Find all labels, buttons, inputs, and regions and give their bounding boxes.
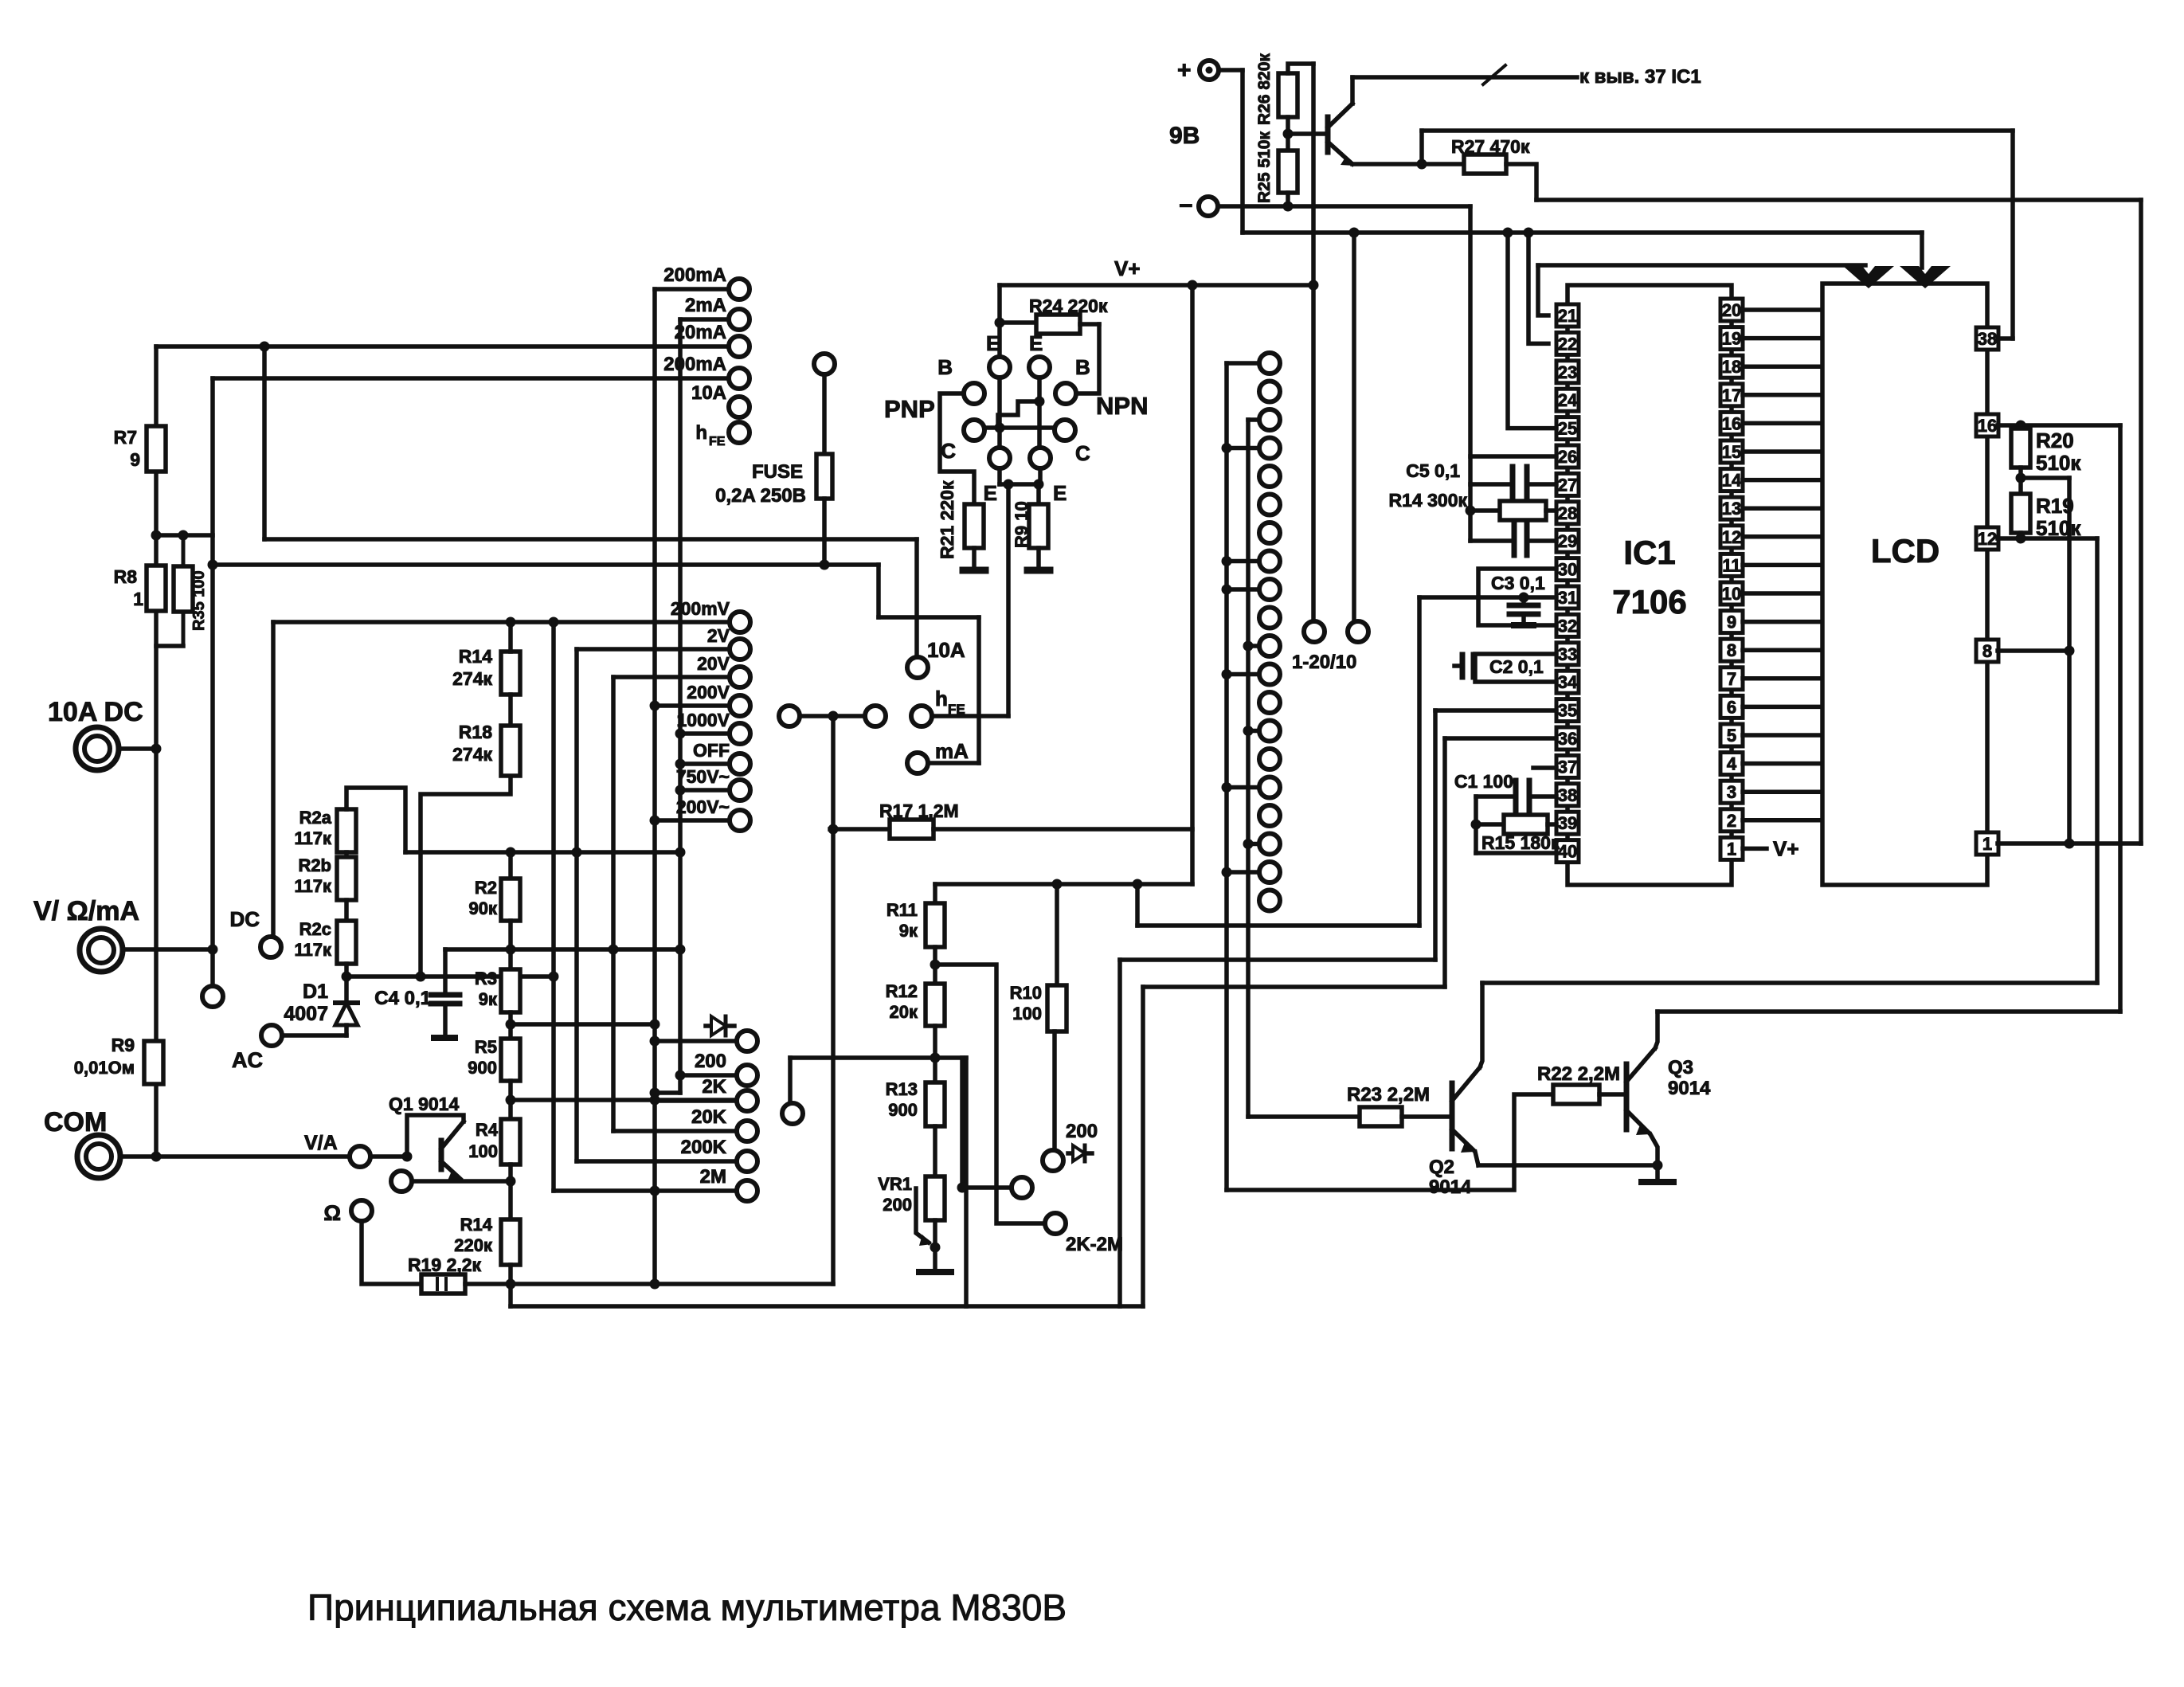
wire IC1 pin1 V+ [1743, 847, 1767, 851]
ground VR1 [919, 1269, 951, 1275]
contact E NPN top [1029, 331, 1050, 378]
wire 2mA to V854 [680, 317, 728, 322]
pin 34 IC1 [1556, 671, 1579, 693]
wire V1497 rail [1190, 285, 1195, 884]
wire V1103 [876, 565, 881, 617]
svg-text:DC: DC [229, 907, 260, 931]
wire row1070 [405, 850, 680, 855]
wire row1381 [511, 1098, 736, 1102]
svg-text:R10: R10 [1010, 983, 1042, 1003]
wire IC1 pin 11 to LCD [1743, 563, 1822, 568]
svg-text:R7: R7 [114, 427, 137, 448]
transistor Q2 9014 [1429, 1067, 1480, 1198]
wire V2688 [2139, 200, 2143, 843]
junction E bottom b [1034, 479, 1044, 490]
wire c18 [1243, 839, 1259, 849]
svg-text:IC1: IC1 [1623, 534, 1675, 571]
svg-text:2K-2M: 2K-2M [1066, 1234, 1123, 1255]
wire pin22 rail [1528, 233, 1548, 343]
wire c9 [1222, 585, 1259, 595]
wire plus lead [1219, 68, 1243, 72]
contact ohm 200K [681, 1137, 757, 1172]
pin 2 IC1 [1720, 809, 1743, 832]
wire emitter row206 [1352, 162, 1464, 166]
svg-text:R21 220к: R21 220к [937, 480, 957, 559]
svg-text:6: 6 [1727, 697, 1736, 717]
contact rotary 8 [1259, 551, 1280, 572]
resistor R2 90k [469, 852, 520, 921]
junction C3 top [1519, 593, 1529, 603]
svg-text:29: 29 [1558, 531, 1577, 551]
wire V1266 hFE feed [1006, 484, 1011, 716]
wire IC1 pin 15 to LCD [1743, 449, 1822, 454]
contact rotary 20 [1259, 890, 1280, 911]
diode D1 4007 [284, 980, 358, 1025]
contact E PNP bottom [984, 448, 1010, 505]
wire pin31 rail [1417, 597, 1422, 926]
svg-text:1-20/10: 1-20/10 [1292, 652, 1356, 673]
svg-text:37: 37 [1558, 757, 1577, 777]
contact C NPN [1055, 420, 1090, 465]
contact V selector [202, 986, 223, 1007]
wire LCD pin12 row [1998, 536, 2097, 541]
wire row1640 [511, 1304, 1143, 1309]
svg-text:21: 21 [1558, 306, 1577, 326]
svg-text:9к: 9к [899, 921, 918, 941]
contact rotary 17 [1259, 805, 1280, 826]
svg-text:+: + [1177, 57, 1192, 84]
wire V332 [262, 346, 267, 539]
svg-text:3: 3 [1727, 782, 1736, 802]
contact rotary 19 [1259, 862, 1280, 883]
svg-text:200: 200 [695, 1051, 726, 1072]
contact rotary 13 [1259, 692, 1280, 713]
wire Q1 emitter row [412, 1179, 511, 1184]
capacitor C2 0,1 [1454, 655, 1544, 677]
junction C row [995, 423, 1005, 433]
wire IC1 pin 5 to LCD [1743, 733, 1822, 738]
wire fuse top [822, 374, 827, 454]
wire LCD pin1 row [1998, 841, 2141, 846]
wire c8 [1222, 556, 1259, 566]
battery plus terminal [1177, 57, 1219, 84]
resistor R23 2,2M [1347, 1084, 1430, 1126]
svg-text:PNP: PNP [884, 395, 935, 423]
wire row1494 Q2 base bus [1227, 1094, 1553, 1190]
svg-text:2K: 2K [702, 1076, 726, 1098]
wire c11 [1243, 641, 1259, 652]
wire V1785 [1419, 131, 1424, 164]
svg-text:27: 27 [1558, 475, 1577, 495]
contact 200V [687, 682, 750, 716]
wire V/Ohm/mA to node [123, 947, 213, 952]
svg-text:32: 32 [1558, 616, 1577, 636]
wire socket step [998, 401, 1039, 428]
wire V1229 [977, 617, 981, 763]
resistor R27 470k [1451, 136, 1530, 174]
resistor R22 2,2M [1537, 1063, 1620, 1104]
svg-text:NPN: NPN [1096, 392, 1148, 420]
svg-text:4007: 4007 [284, 1003, 328, 1025]
svg-text:R4: R4 [476, 1120, 499, 1140]
wire D1 to AC row [344, 1025, 349, 1035]
wire row251 [1536, 198, 2141, 202]
svg-text:510к: 510к [2036, 451, 2081, 475]
svg-text:220к: 220к [454, 1235, 493, 1255]
junction row292 V1700 [1349, 228, 1360, 238]
junction R7 bottom [151, 530, 162, 541]
wire row1226 [346, 974, 554, 979]
contact 20V [697, 653, 750, 687]
capacitor C1 100 [1454, 771, 1529, 812]
wire Q2 emitter drop [1475, 1152, 1478, 1165]
wire row 677 [264, 537, 917, 542]
svg-text:26: 26 [1558, 447, 1577, 467]
junction 10A DC node [151, 744, 162, 754]
junction V node [208, 945, 218, 955]
wire 20V row [613, 675, 729, 679]
contact E PNP top [986, 331, 1010, 378]
wire IC1 pin 16 to LCD [1743, 421, 1822, 426]
wire V1213 [964, 1058, 969, 1306]
wire IC1 pin 2 to LCD [1743, 818, 1822, 823]
svg-text:30: 30 [1558, 560, 1577, 580]
svg-text:R26 820к: R26 820к [1255, 53, 1274, 125]
svg-text:31: 31 [1558, 588, 1577, 608]
junction R11 bottom [930, 960, 941, 970]
svg-text:R8: R8 [114, 566, 138, 587]
contact E NPN bottom [1030, 448, 1067, 505]
resistor R9 [74, 1035, 163, 1084]
svg-text:14: 14 [1722, 471, 1742, 491]
wire DC rail V343 [271, 622, 276, 936]
wire row1463 [1478, 1163, 1658, 1168]
svg-text:10A DC: 10A DC [48, 697, 143, 727]
contact hFE right [911, 687, 965, 726]
pin 14 IC1 [1720, 469, 1743, 491]
wire pin35 rail [1433, 710, 1438, 960]
wire V770 rail [611, 677, 616, 1131]
wire IC1 pin 14 to LCD [1743, 478, 1822, 483]
svg-text:20K: 20K [691, 1106, 727, 1128]
svg-text:0,2A 250В: 0,2A 250В [715, 485, 806, 507]
IC IC1 7106 box [1568, 285, 1732, 885]
wire rail V1567 [1246, 420, 1251, 1117]
pin 7 IC1 [1720, 667, 1743, 690]
resistor R5 900 [468, 1012, 520, 1081]
junction pin8 [2065, 646, 2075, 656]
contact 200mA [663, 264, 750, 299]
contact rotary 1 [1259, 353, 1280, 374]
fuse FUSE 0,2A 250B [715, 454, 832, 507]
wire IC1 pin 6 to LCD [1743, 705, 1822, 710]
svg-text:R9: R9 [112, 1035, 135, 1055]
wire IC1 pin 10 to LCD [1743, 591, 1822, 596]
contact 10A [691, 382, 750, 417]
wire IC1 pin 8 to LCD [1743, 648, 1822, 652]
junction E bottom a [1004, 479, 1014, 490]
pin 6 IC1 [1720, 695, 1743, 718]
pin 39 IC1 [1556, 812, 1579, 834]
wire V724 rail [574, 649, 579, 1161]
svg-text:200mA: 200mA [663, 264, 726, 286]
svg-text:Ω: Ω [323, 1201, 341, 1225]
resistor R9 10 [1012, 484, 1048, 548]
wire V1406 [1117, 960, 1122, 1306]
wire V854 jog [650, 1088, 681, 1098]
svg-text:Q3: Q3 [1668, 1057, 1693, 1078]
contact rotary 14 [1259, 721, 1280, 742]
pin 17 IC1 [1720, 384, 1743, 406]
resistor R21 220k [937, 480, 984, 559]
svg-text:C2 0,1: C2 0,1 [1489, 656, 1544, 677]
capacitor C3 0,1 [1509, 597, 1538, 625]
pin 25 IC1 [1556, 417, 1579, 440]
ground R9-10 [1027, 567, 1050, 574]
contact 2V [707, 625, 750, 660]
pin 12 LCD [1976, 527, 1998, 550]
junction R15 left [1471, 820, 1481, 830]
wire IC1 pin 18 to LCD [1743, 364, 1822, 369]
svg-text:к выв. 37 IC1: к выв. 37 IC1 [1579, 66, 1701, 88]
contact mid selector [782, 1103, 803, 1124]
svg-text:R35 100: R35 100 [190, 570, 208, 631]
wire C5 row [1470, 482, 1513, 487]
svg-text:mA: mA [935, 739, 969, 763]
pin 35 IC1 [1556, 699, 1579, 722]
wire pin33 loop [1475, 654, 1556, 682]
contact 200mA [663, 354, 750, 389]
wire R23 to Q2 [1402, 1114, 1450, 1119]
svg-text:22: 22 [1558, 334, 1577, 354]
wire 200mA to V820 [655, 287, 728, 292]
wire R27 right [1506, 164, 1536, 200]
resistor R2a 117k [294, 808, 356, 852]
resistor R19 2,2k [408, 1254, 482, 1294]
resistor R25 510k [1255, 117, 1297, 206]
svg-text:5: 5 [1727, 726, 1736, 746]
junction row1381 V820 [650, 1095, 660, 1106]
svg-text:9014: 9014 [1429, 1176, 1472, 1198]
contact DC [229, 907, 281, 957]
contact rotary 15 [1259, 749, 1280, 769]
junction R2c bottom [342, 972, 352, 982]
wire row1612 [465, 1282, 833, 1286]
wire C1 left rail [1474, 797, 1478, 853]
pin 9 IC1 [1720, 611, 1743, 633]
svg-text:16: 16 [1722, 413, 1741, 433]
wire pin36 rail [1442, 738, 1447, 987]
wire 2K row [655, 1098, 736, 1103]
svg-text:D1: D1 [303, 980, 328, 1003]
svg-text:200K: 200K [681, 1137, 727, 1158]
contact 2mA [685, 295, 750, 330]
wire pin26 feed [1470, 454, 1556, 459]
junction row1110 R10 [1052, 879, 1063, 890]
junction row1070 V854 [675, 847, 686, 858]
pin 3 IC1 [1720, 781, 1743, 803]
wire V+ row [1000, 283, 1313, 288]
pin 38 LCD [1976, 327, 1998, 350]
transistor Q battery [1328, 77, 1354, 166]
svg-text:E: E [986, 331, 1000, 355]
svg-text:C3 0,1: C3 0,1 [1491, 573, 1545, 593]
contact Q1 emitter [391, 1171, 412, 1192]
svg-text:900: 900 [468, 1058, 497, 1078]
wire V1428 [1135, 884, 1140, 926]
potentiometer VR1 200 [878, 1126, 945, 1246]
svg-text:R19: R19 [2036, 494, 2074, 518]
pin 18 IC1 [1720, 355, 1743, 378]
wire row1211 [935, 965, 1044, 1223]
junction Q1 bracket [402, 1152, 413, 1162]
svg-text:Q2: Q2 [1429, 1157, 1454, 1178]
wire V1560 [1240, 70, 1245, 233]
junction row1328 chain [930, 1053, 941, 1063]
svg-text:R2a: R2a [299, 808, 332, 828]
svg-text:2mA: 2mA [685, 295, 726, 316]
contact rotary 4 [1259, 438, 1280, 459]
contact rotary 11 [1259, 636, 1280, 656]
svg-text:36: 36 [1558, 729, 1577, 749]
wire R22 to Q3 [1599, 1092, 1624, 1097]
pin 5 IC1 [1720, 724, 1743, 746]
wire fuse bottom [822, 499, 827, 565]
wire 1000V row [675, 729, 730, 739]
svg-text:R20: R20 [2036, 429, 2074, 452]
wire OFF row [675, 759, 730, 769]
wire pin25 feed [1508, 233, 1556, 429]
wire c3 [1248, 417, 1258, 422]
svg-text:B: B [1075, 355, 1090, 379]
junction pair [828, 711, 839, 722]
junction row1192 V854 [675, 945, 686, 955]
pin 40 IC1 [1556, 840, 1579, 863]
svg-text:15: 15 [1722, 442, 1741, 462]
wire mA row [929, 761, 979, 765]
contact 1-20/10 right [1348, 621, 1368, 642]
resistor R19 510k [2011, 468, 2081, 540]
wire V854 rail [678, 319, 683, 1093]
resistor R14 220k [454, 1215, 520, 1265]
svg-text:R12: R12 [886, 981, 918, 1001]
svg-text:VR1: VR1 [878, 1174, 912, 1194]
contact rotary 18 [1259, 834, 1280, 855]
resistor R35 [174, 535, 208, 646]
contact 200 sel [1043, 1121, 1098, 1171]
junction row1226 V529 [416, 972, 426, 982]
svg-text:C4 0,1: C4 0,1 [374, 988, 431, 1009]
svg-text:200mA: 200mA [663, 354, 726, 375]
svg-text:19: 19 [1722, 329, 1741, 349]
resistor R3 9k [475, 921, 520, 1012]
svg-text:AC: AC [232, 1048, 263, 1072]
svg-text:R14: R14 [460, 1215, 493, 1235]
LCD box [1822, 284, 1987, 885]
wire pair row [800, 714, 864, 718]
svg-text:200V~: 200V~ [676, 797, 730, 817]
resistor R8 [114, 566, 166, 611]
junction V+ a [1188, 280, 1198, 291]
wire socket E column PNP [997, 378, 1002, 447]
svg-text:274к: 274к [452, 668, 492, 689]
junction R20 R19 [2016, 473, 2026, 483]
wire c16 [1222, 782, 1259, 793]
junction pin12 R19 [2016, 534, 2026, 544]
junction pin25 feed [1503, 228, 1513, 238]
svg-text:7: 7 [1727, 669, 1736, 689]
contact 1-20/10 left [1304, 621, 1325, 642]
svg-text:R25 510к: R25 510к [1255, 131, 1274, 203]
pin 20 IC1 [1720, 299, 1743, 321]
resistor R4 100 [468, 1081, 520, 1164]
svg-text:E: E [984, 481, 997, 505]
junction row1070 chain [506, 847, 516, 858]
wire diode row [650, 1036, 737, 1047]
pin 8 LCD [1976, 640, 1998, 662]
wire Q2 collector [1480, 983, 1482, 1067]
wire 200 row [675, 1071, 737, 1081]
junction row1226 V695 [549, 972, 559, 982]
svg-text:OFF: OFF [693, 740, 730, 761]
wire IC1 pin 19 to LCD [1743, 336, 1822, 341]
wire row1192 [445, 947, 680, 952]
junction row1612 V820 [650, 1279, 660, 1290]
svg-text:20: 20 [1722, 300, 1741, 320]
junction R24 left [995, 318, 1005, 328]
wire V528 staircase [421, 776, 511, 977]
wire V820 long rail [652, 289, 657, 1284]
wire row1270 [1658, 1009, 2120, 1014]
svg-text:2V: 2V [707, 625, 730, 646]
contact B PNP [937, 355, 984, 404]
wire cap29 row [1470, 538, 1514, 543]
wire IC1 pin 17 to LCD [1743, 393, 1822, 397]
pin 12 IC1 [1720, 526, 1743, 548]
wire IC1 pin 13 to LCD [1743, 506, 1822, 511]
wire c4 [1222, 443, 1259, 453]
pin 1 IC1 [1720, 837, 1743, 859]
svg-text:9к: 9к [479, 989, 498, 1009]
junction 200mV V695 [549, 617, 559, 628]
contact C PNP [941, 420, 984, 463]
contact ohm 2K [702, 1076, 757, 1111]
wire B PNP bracket [940, 393, 974, 504]
contact ohm 20K [691, 1106, 757, 1141]
svg-text:R22 2,2M: R22 2,2M [1537, 1063, 1620, 1085]
svg-text:90к: 90к [469, 898, 498, 918]
svg-text:2M: 2M [700, 1166, 726, 1188]
junction Q emitters [1653, 1161, 1663, 1171]
wire R17 row left [830, 827, 890, 832]
junction row1286 chain [506, 1020, 516, 1030]
wire pin21 feed [1538, 265, 1548, 315]
wire pin37 stub [1533, 765, 1556, 770]
junction minus R25 [1283, 202, 1294, 212]
svg-text:0,01Ом: 0,01Ом [74, 1058, 135, 1078]
wire row164 to LCD38 [1422, 128, 2013, 133]
wire 200V row [650, 701, 730, 711]
svg-text:E: E [1029, 331, 1043, 355]
contact V/A [350, 1146, 370, 1167]
pin 30 IC1 [1556, 558, 1579, 581]
contact 20mA [675, 322, 750, 357]
contact rotary 6 [1259, 495, 1280, 515]
resistor R2c 117k [294, 900, 356, 964]
wire Q1 bracket [407, 1115, 464, 1157]
wire hFE row [933, 714, 1008, 718]
svg-text:9: 9 [130, 449, 140, 470]
